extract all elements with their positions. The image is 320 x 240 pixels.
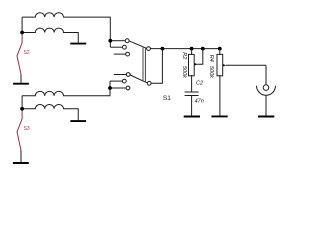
inductor L1 (top row) [22,13,110,41]
S1 deck2 blade [130,75,147,83]
ground G6 [211,115,227,117]
S1 deck2 bus [109,81,111,96]
S1 coupling link [143,47,145,82]
ground G4 [13,162,29,164]
junction dots [20,31,222,111]
connector X1 shield arc [257,86,276,96]
potentiometer R4 stem [219,49,221,55]
ground G5 [184,116,200,118]
potentiometer R4 body [217,54,223,75]
capacitor C2 plates [185,92,199,96]
inductor L3 (third row) [22,88,110,96]
S1 deck1 throw 2 wire [110,46,122,48]
S1 deck2 throw 1 stub [114,74,126,76]
potentiometer R4 to ground [219,75,221,116]
switch S2 blade [17,33,22,74]
inductor L4 (fourth row) [22,104,78,120]
svg-text:R4: R4 [208,55,214,62]
potentiometer R4 wiper wire [226,64,266,66]
S1 deck1 blade [129,41,146,48]
svg-text:C2: C2 [196,80,203,86]
svg-text:500k: 500k [181,66,187,78]
S1 deck1 bus [109,41,111,48]
connector X1 shield to ground [265,96,267,116]
wire bottom-left bus [21,96,23,109]
S1 deck2 throw circles [126,73,130,77]
S1 pole1 circle [147,47,151,51]
capacitor C2 to ground [191,96,193,116]
potentiometer R2 stem [191,49,193,55]
capacitor C2 stem [191,75,193,92]
wire S1 pole1 to R network [151,48,220,50]
svg-text:500k: 500k [208,66,214,78]
S1 deck1 throw circles [125,39,129,43]
ground G1 [70,43,86,45]
S1 deck2 throw 2 wire [110,80,122,82]
ground G2 [13,83,29,85]
svg-text:S2: S2 [24,50,30,56]
S1 deck1 throw 3 stub [114,53,126,55]
svg-text:47n: 47n [195,99,204,105]
svg-text:S3: S3 [24,126,30,132]
ground G7 [258,116,274,118]
inductor L2 (second row) [22,28,78,43]
svg-text:R2: R2 [181,52,187,59]
wire S2 to ground [20,74,22,82]
S1 pole2 circle [147,81,151,85]
wire S3 to ground [20,150,22,162]
S1 deck1 throw 1 wire [110,40,125,42]
switch S3 blade [17,109,22,150]
svg-text:S1: S1 [163,95,171,102]
potentiometer R2 wiper [197,49,203,65]
S1 deck2 throw 3 wire [110,87,126,89]
ground G3 [70,120,86,122]
connector X1 pin [263,85,269,91]
wire S1 pole2 loop [151,49,162,84]
potentiometer R2 body [189,54,195,75]
wire top-left bus [21,17,23,32]
wire to output jack [265,65,267,85]
